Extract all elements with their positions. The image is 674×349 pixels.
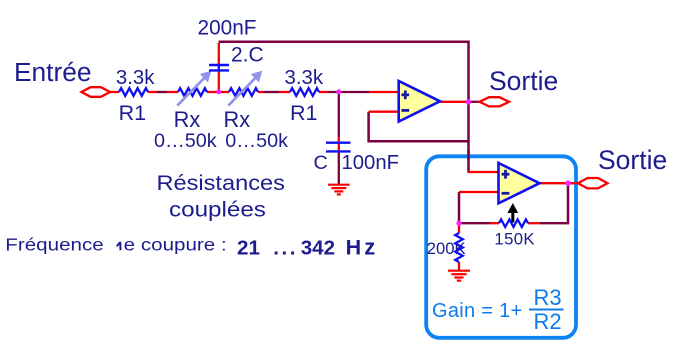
svg-text:Entrée: Entrée: [14, 57, 91, 87]
svg-text:100nF: 100nF: [342, 152, 400, 174]
svg-text:R1: R1: [290, 101, 317, 125]
svg-text:3.3k: 3.3k: [285, 67, 324, 89]
svg-text:Sortie: Sortie: [598, 145, 667, 175]
svg-text:C: C: [314, 152, 328, 174]
svg-text:21: 21: [237, 236, 260, 259]
svg-text:0…50k: 0…50k: [225, 130, 288, 152]
svg-text:Gain = 1+: Gain = 1+: [432, 300, 523, 322]
svg-text:150K: 150K: [494, 230, 535, 249]
svg-text:3.3k: 3.3k: [116, 67, 155, 89]
svg-text:couplées: couplées: [169, 197, 266, 221]
svg-text:.: .: [290, 236, 296, 259]
svg-text:200nF: 200nF: [198, 16, 257, 39]
svg-text:Fréquence: Fréquence: [5, 236, 103, 255]
svg-text:0…50k: 0…50k: [154, 130, 217, 152]
svg-text:2.C: 2.C: [231, 44, 264, 67]
svg-text:Sortie: Sortie: [489, 66, 558, 96]
svg-text:342: 342: [301, 236, 335, 259]
svg-text:z: z: [364, 234, 375, 259]
svg-text:Rx: Rx: [174, 107, 201, 132]
svg-text:H: H: [346, 235, 362, 259]
svg-text:Résistances: Résistances: [157, 171, 285, 195]
svg-text:.: .: [282, 236, 288, 259]
svg-text:R3: R3: [534, 285, 562, 310]
svg-text:e coupure :: e coupure :: [124, 236, 227, 255]
svg-text:.: .: [273, 236, 279, 259]
svg-text:R2: R2: [534, 309, 562, 334]
svg-text:R1: R1: [119, 101, 146, 125]
svg-text:Rx: Rx: [224, 107, 251, 132]
